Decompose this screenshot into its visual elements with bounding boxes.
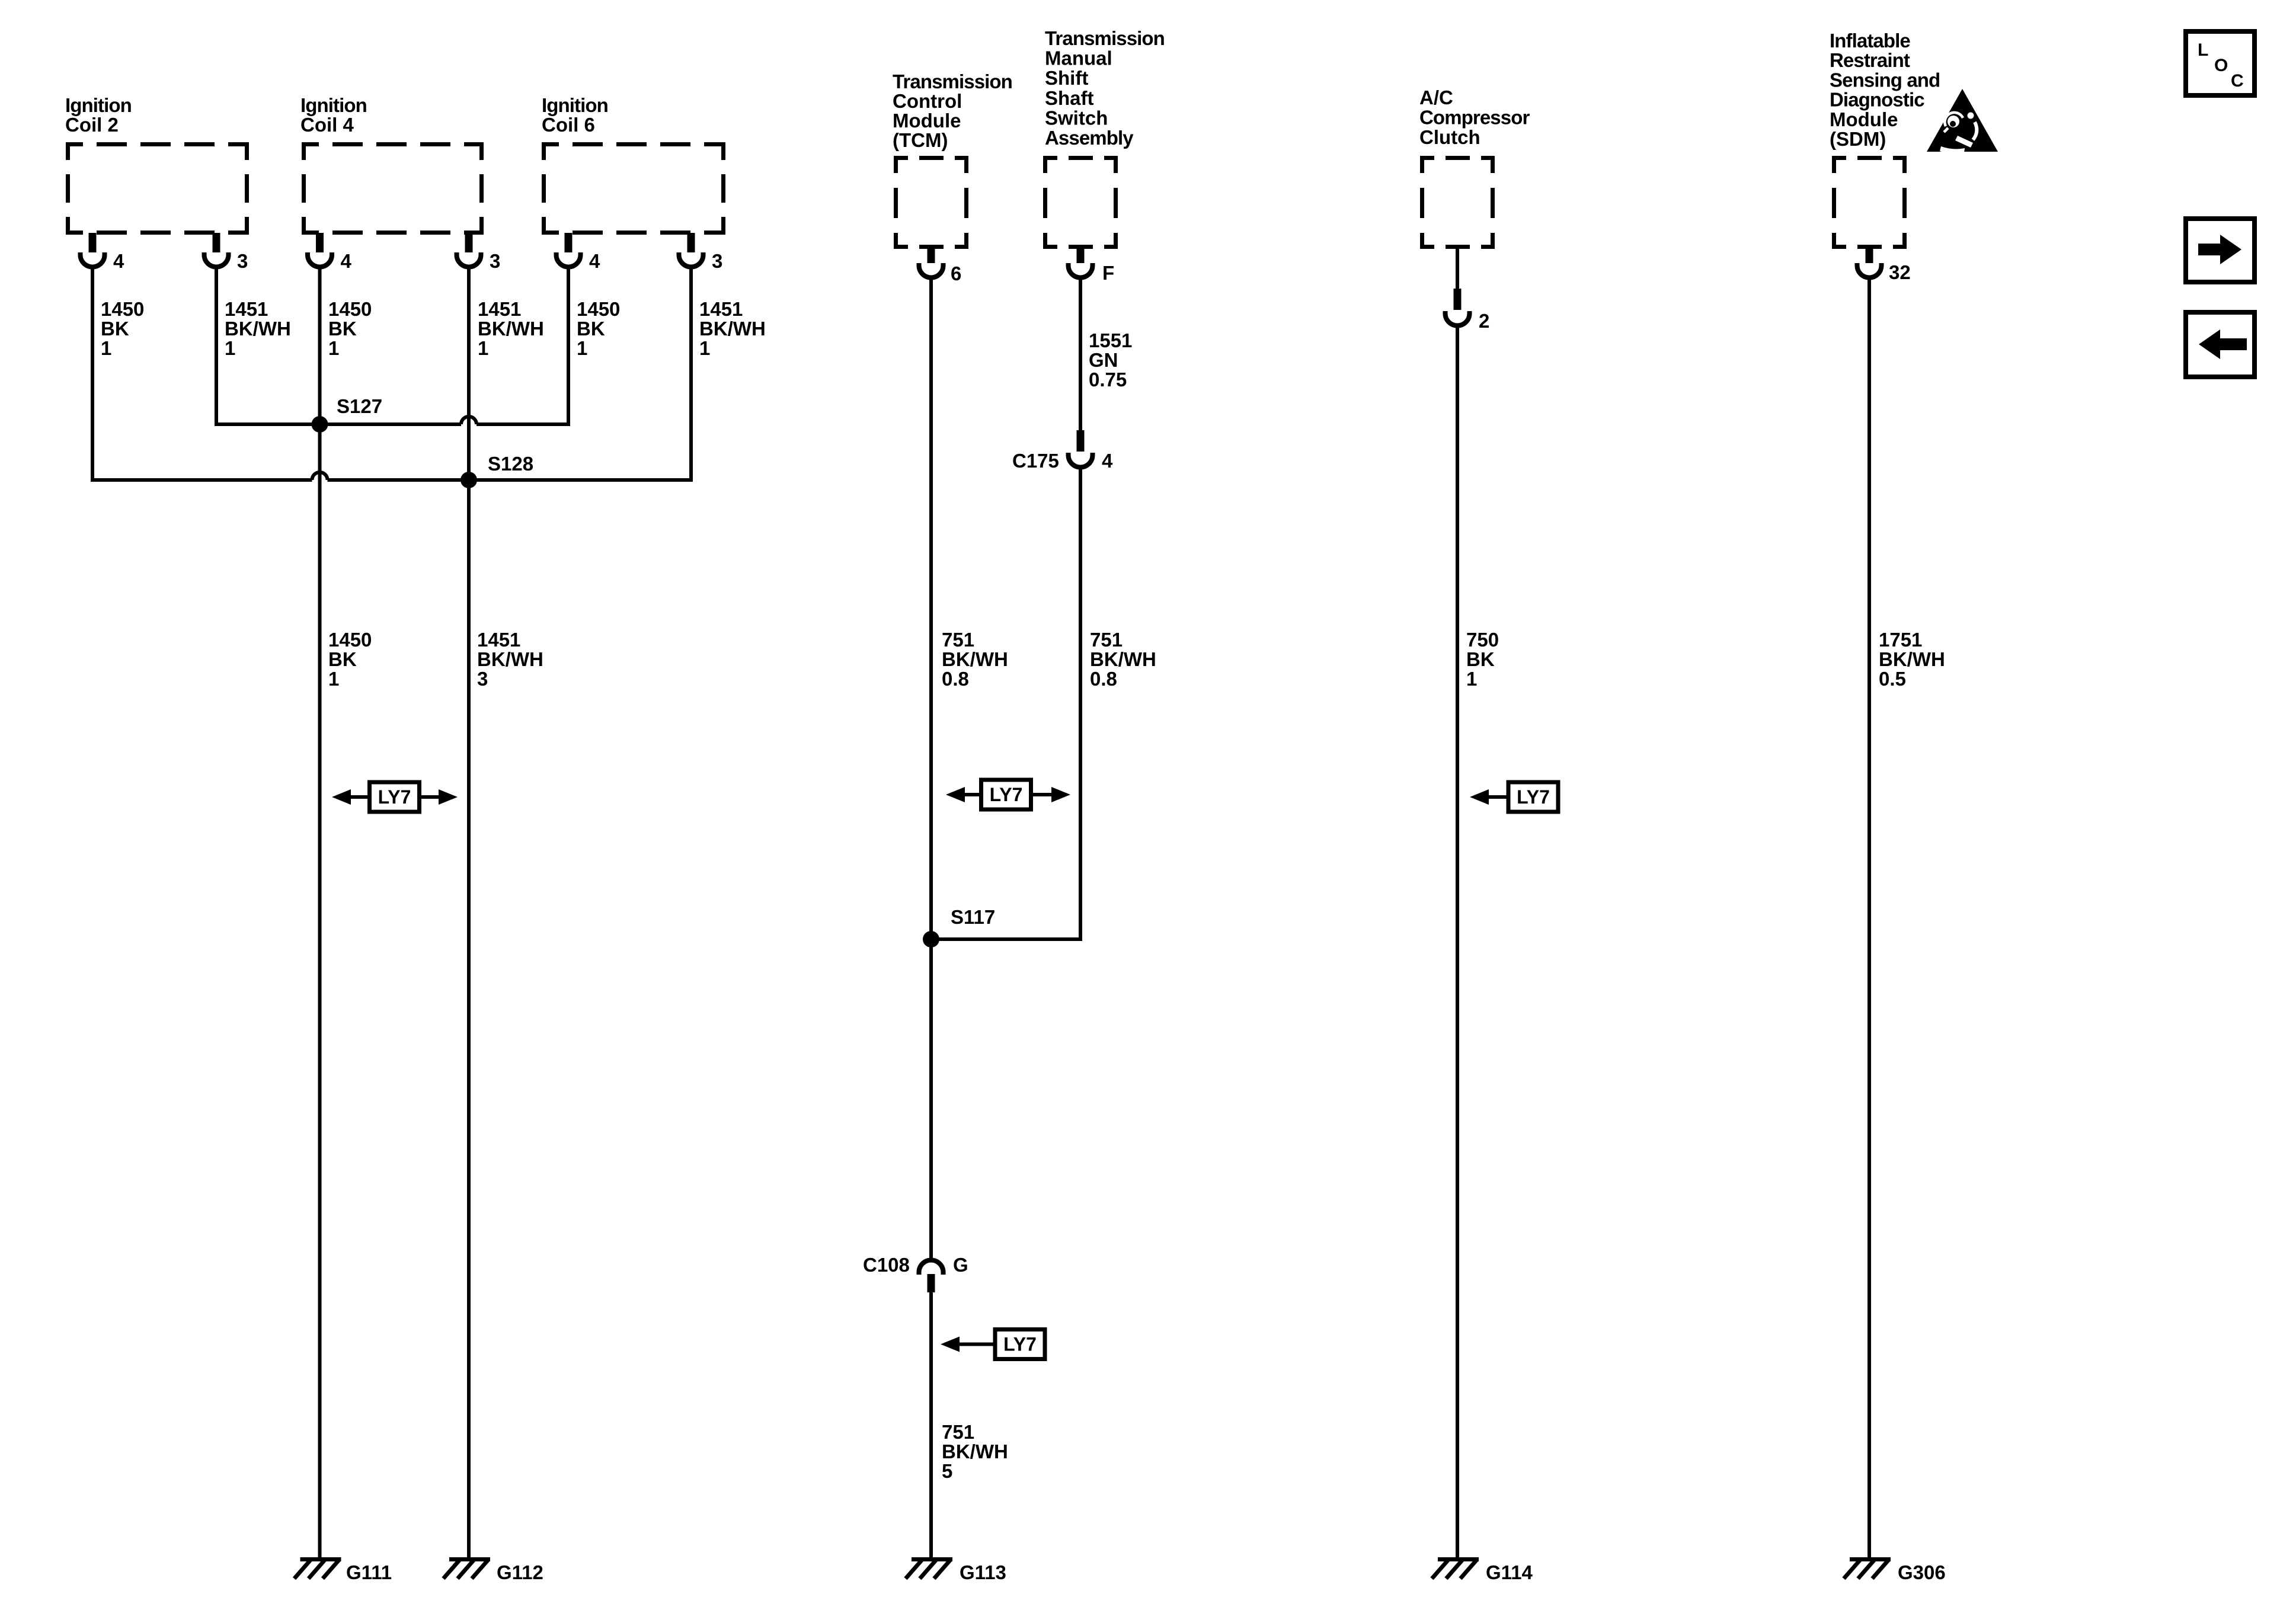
svg-text:1451: 1451 [477,629,520,651]
svg-text:1751: 1751 [1879,629,1922,651]
svg-text:Coil 4: Coil 4 [300,114,354,136]
ignition coil 4 box [302,142,484,235]
ground G112 [449,1557,490,1561]
legend box arrow right [2186,219,2255,282]
svg-text:Ignition: Ignition [65,94,132,116]
svg-text:0.8: 0.8 [942,668,969,690]
svg-text:Ignition: Ignition [542,94,608,116]
svg-text:BK/WH: BK/WH [225,318,291,340]
svg-text:BK/WH: BK/WH [699,318,766,340]
svg-text:G114: G114 [1486,1561,1533,1583]
svg-text:Inflatable: Inflatable [1830,30,1910,52]
svg-text:Sensing and: Sensing and [1830,69,1940,91]
wire 1451 coil4 pin3 down to G112 [467,268,471,1558]
legend box arrow left [2186,312,2255,377]
svg-text:BK/WH: BK/WH [942,648,1008,670]
svg-text:Ignition: Ignition [300,94,367,116]
svg-text:(TCM): (TCM) [893,129,948,151]
svg-text:BK/WH: BK/WH [1090,648,1156,670]
svg-text:32: 32 [1889,261,1911,283]
svg-text:BK: BK [577,318,605,340]
ground G113 [912,1557,952,1561]
svg-text:C175: C175 [1012,450,1059,472]
svg-text:5: 5 [942,1460,952,1482]
svg-text:F: F [1102,262,1114,284]
switch assembly connector pin F [1077,247,1085,263]
svg-text:1451: 1451 [699,298,743,320]
wire 1450 coil6 pin4 to S127 [567,268,570,426]
svg-text:1450: 1450 [328,629,372,651]
wire 751 from C108 down to G113 [929,1292,933,1558]
svg-text:S127: S127 [337,395,382,417]
svg-text:BK/WH: BK/WH [1879,648,1945,670]
svg-text:1450: 1450 [577,298,620,320]
inline connector C175 pin 4 [1077,430,1085,452]
svg-text:BK: BK [101,318,129,340]
svg-text:1: 1 [1466,668,1477,690]
svg-text:4: 4 [341,250,352,272]
wire 751 TCM pin6 down to C108 [929,279,933,1260]
ground G111 [300,1557,341,1561]
A/C compressor clutch box [1420,156,1495,249]
connector pin 3 of ignition coil 2 [213,233,220,252]
svg-text:Module: Module [893,110,961,132]
harness code LY7 double arrow (middle section) [981,780,1031,809]
svg-text:G306: G306 [1898,1561,1946,1583]
svg-text:0.8: 0.8 [1090,668,1117,690]
inline connector C108 pin G [919,1260,944,1275]
svg-text:3: 3 [477,668,488,690]
svg-text:4: 4 [589,250,600,272]
svg-text:1450: 1450 [328,298,372,320]
svg-text:(SDM): (SDM) [1830,128,1886,150]
svg-text:Coil 6: Coil 6 [542,114,595,136]
svg-text:1: 1 [478,337,488,359]
ground G306 [1850,1557,1891,1561]
connector pin 3 of ignition coil 4 [465,233,473,252]
svg-text:Switch: Switch [1045,107,1108,129]
svg-text:S128: S128 [488,453,533,475]
splice S128 junction dot [461,472,477,488]
svg-text:4: 4 [1102,450,1113,472]
SRS warning triangle icon [1927,89,1998,153]
svg-text:Compressor: Compressor [1419,107,1530,129]
svg-text:751: 751 [942,629,974,651]
splice S128 horizontal wire with hop over coil4 pin4 wire [92,478,312,482]
svg-text:Manual: Manual [1045,47,1112,69]
svg-text:G113: G113 [960,1561,1006,1583]
svg-text:C: C [2231,71,2244,91]
connector pin 4 of ignition coil 6 [565,233,573,252]
switch assembly box [1043,156,1118,249]
svg-text:3: 3 [237,250,248,272]
svg-text:751: 751 [1090,629,1123,651]
ignition coil 2 box [66,142,249,235]
TCM box [894,156,968,249]
svg-text:LY7: LY7 [378,786,411,808]
svg-text:C108: C108 [863,1254,910,1276]
svg-text:1: 1 [328,337,339,359]
svg-text:750: 750 [1466,629,1499,651]
harness code LY7 single arrow (A/C section) [1508,782,1558,812]
svg-text:1: 1 [699,337,710,359]
svg-text:751: 751 [942,1421,974,1443]
svg-text:6: 6 [951,263,961,284]
wire 1751 from SDM down to G306 [1868,279,1871,1558]
svg-text:Coil 2: Coil 2 [65,114,119,136]
svg-text:LY7: LY7 [990,784,1023,805]
ground G114 [1438,1557,1479,1561]
svg-text:2: 2 [1479,310,1489,332]
svg-text:LY7: LY7 [1517,786,1550,808]
svg-text:Transmission: Transmission [893,71,1012,92]
svg-text:LY7: LY7 [1003,1334,1037,1355]
splice S127 junction dot [312,416,328,433]
svg-text:1: 1 [577,337,587,359]
svg-text:Control: Control [893,90,962,112]
svg-text:G: G [953,1254,968,1276]
svg-text:BK: BK [328,318,357,340]
svg-text:1: 1 [328,668,339,690]
ignition coil 6 box [542,142,725,235]
svg-text:Diagnostic: Diagnostic [1830,89,1924,111]
splice S117 horizontal wire [931,937,1080,941]
svg-text:3: 3 [490,250,500,272]
svg-text:1450: 1450 [101,298,144,320]
connector pin 3 of ignition coil 6 [687,233,695,252]
svg-text:Shift: Shift [1045,67,1088,89]
svg-text:GN: GN [1089,349,1118,371]
svg-text:S117: S117 [951,906,995,928]
harness code LY7 single arrow (below C108) [995,1330,1045,1359]
connector pin 4 of ignition coil 2 [89,233,97,252]
svg-text:3: 3 [712,250,722,272]
svg-text:0.5: 0.5 [1879,668,1906,690]
wire 1551 pin F down to C175 [1079,279,1082,431]
svg-text:G111: G111 [346,1561,392,1583]
svg-text:1451: 1451 [478,298,521,320]
LOC legend box [2186,31,2255,95]
wire 1451 coil2 pin3 to S127 [215,268,218,426]
wire 751 from C175 down to S117 [1079,469,1082,941]
svg-text:BK: BK [328,648,357,670]
svg-text:1: 1 [225,337,235,359]
svg-text:Clutch: Clutch [1419,126,1480,148]
wire 750 from A/C clutch down to G114 [1456,327,1459,1558]
svg-text:O: O [2214,56,2228,75]
TCM connector pin 6 [928,247,935,263]
wire 1451 coil6 pin3 to S128 [689,268,693,482]
wire 1450 coil2 pin4 to S128 [91,268,94,482]
svg-text:1451: 1451 [225,298,268,320]
connector pin 4 of ignition coil 4 [316,233,324,252]
svg-text:Assembly: Assembly [1045,127,1134,149]
svg-text:G112: G112 [497,1561,543,1583]
splice S117 junction dot [923,931,939,948]
svg-text:1: 1 [101,337,111,359]
svg-text:1551: 1551 [1089,329,1132,351]
svg-text:Module: Module [1830,108,1898,130]
svg-text:L: L [2198,40,2208,60]
splice S127 horizontal wire with hop over coil4 pin3 wire [216,422,461,426]
svg-text:Shaft: Shaft [1045,87,1094,109]
A/C clutch connector pin 2 [1456,247,1459,290]
svg-text:0.75: 0.75 [1089,369,1127,391]
svg-text:4: 4 [113,250,124,272]
wire 1450 coil4 pin4 down to G111 [318,268,322,1558]
svg-text:Transmission: Transmission [1045,27,1165,49]
SDM box [1832,156,1907,249]
svg-text:BK/WH: BK/WH [478,318,544,340]
svg-text:A/C: A/C [1419,87,1453,108]
svg-text:BK: BK [1466,648,1495,670]
svg-text:BK/WH: BK/WH [477,648,543,670]
SDM connector pin 32 [1866,247,1873,263]
svg-text:BK/WH: BK/WH [942,1441,1008,1462]
harness code LY7 double arrow (left section) [370,782,420,812]
svg-text:Restraint: Restraint [1830,49,1910,71]
